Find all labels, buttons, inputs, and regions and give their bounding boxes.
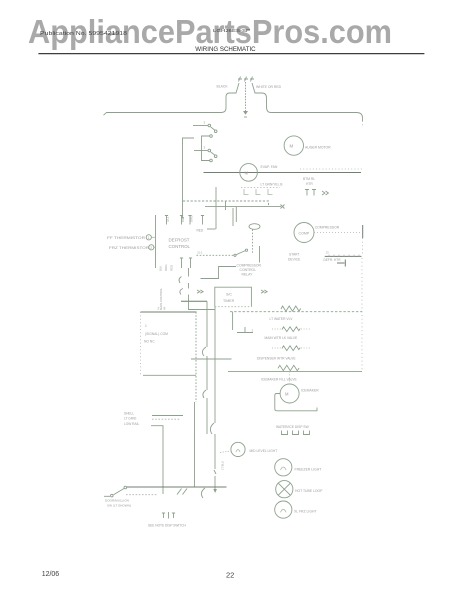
- motor M2 evap fan: [240, 164, 258, 182]
- door switch S2 terminal: [208, 149, 211, 152]
- defrost control bracket: [155, 215, 157, 268]
- control lower pin 1: [180, 258, 183, 268]
- main control box bottom: [143, 374, 196, 376]
- wire plug left to line L: [106, 83, 239, 113]
- wire to timer: [189, 301, 215, 309]
- icemaker motor: [280, 384, 299, 403]
- svg-text:J2-1: J2-1: [166, 216, 170, 222]
- svg-text:BLACK: BLACK: [217, 85, 229, 89]
- main control box left dotted: [140, 312, 142, 375]
- control pin 3: [188, 216, 191, 225]
- wire solid rail: [205, 206, 281, 208]
- svg-text:(SIGNAL) COM: (SIGNAL) COM: [145, 332, 168, 336]
- ground wire: [245, 82, 247, 111]
- door switch S2 stub: [194, 150, 208, 152]
- svg-text:NO NC: NO NC: [144, 340, 155, 344]
- shell wire 3: [151, 426, 163, 494]
- svg-text:COMPRESSOR: COMPRESSOR: [237, 264, 262, 268]
- svg-text:MAIN CONTROL: MAIN CONTROL: [159, 287, 163, 310]
- svg-text:WIRING SCHEMATIC: WIRING SCHEMATIC: [195, 46, 255, 53]
- door switch S1 stub: [193, 125, 208, 127]
- svg-text:SHELL: SHELL: [124, 412, 134, 416]
- bus break arc 2: [202, 347, 206, 356]
- svg-text:DOOR/MULLION: DOOR/MULLION: [105, 499, 129, 503]
- svg-text:3: 3: [252, 329, 254, 333]
- right bus solid segment: [362, 225, 364, 238]
- svg-text:CONTROL: CONTROL: [169, 244, 191, 249]
- connector pins right: [305, 190, 316, 196]
- heater R2 zigzag: [282, 327, 300, 332]
- freezer light: [275, 459, 292, 476]
- svg-text:ORG: ORG: [190, 216, 194, 222]
- wire drop A: [215, 187, 217, 229]
- arrow chevrons: [322, 191, 328, 195]
- control pin 1: [165, 216, 168, 225]
- svg-text:FREEZER LIGHT: FREEZER LIGHT: [295, 467, 322, 471]
- heater R3 zigzag: [282, 346, 300, 351]
- heater ladder top rail: [230, 311, 362, 313]
- svg-text:FF THERMISTOR: FF THERMISTOR: [107, 236, 145, 240]
- svg-text:COMPRESSOR: COMPRESSOR: [315, 226, 340, 230]
- svg-text:LOW RAIL: LOW RAIL: [124, 422, 139, 426]
- chevrons mid: [197, 290, 203, 293]
- FF thermistor pin circle: [146, 235, 151, 240]
- bus break arc 4: [201, 488, 205, 498]
- heater R1 zigzag: [281, 306, 301, 311]
- svg-text:2: 2: [150, 246, 152, 250]
- svg-text:LT WATER VLV: LT WATER VLV: [270, 317, 294, 321]
- R3 stubs: [272, 347, 282, 349]
- svg-text:HTR: HTR: [306, 182, 313, 186]
- svg-text:ORG: ORG: [164, 264, 168, 271]
- wire drop D: [235, 207, 237, 222]
- svg-text:RED: RED: [170, 265, 174, 271]
- connector row ticks: [241, 187, 280, 189]
- thermostat dashed wire: [252, 230, 254, 255]
- wire left bus: [181, 138, 194, 218]
- relay dashed wire: [197, 254, 235, 256]
- svg-text:RED: RED: [197, 229, 204, 233]
- relay coil wire: [259, 246, 261, 263]
- terminal pins bottom: [162, 512, 175, 519]
- bus from timer: [214, 307, 216, 423]
- chevrons right of timer: [261, 290, 267, 293]
- svg-text:EVAP. FAN: EVAP. FAN: [261, 165, 278, 169]
- control lower pin 2: [189, 258, 192, 268]
- svg-text:3: 3: [204, 121, 206, 125]
- right bus dashed lower: [362, 238, 364, 256]
- svg-text:J1-1: J1-1: [197, 251, 203, 255]
- R2 stubs: [272, 328, 282, 330]
- svg-text:BLK: BLK: [159, 265, 163, 271]
- bottom switch lower terminal: [111, 494, 114, 497]
- power plug P1 prongs: [238, 77, 254, 82]
- svg-text:Publication No. 5995421918: Publication No. 5995421918: [40, 31, 127, 37]
- bracket bottom terminal: [210, 159, 213, 162]
- title rule: [38, 53, 424, 55]
- svg-text:HOT TUBE LOOP: HOT TUBE LOOP: [295, 489, 323, 493]
- svg-text:FRZ THERMISTOR: FRZ THERMISTOR: [109, 246, 149, 250]
- S/C timer box: [215, 287, 252, 307]
- svg-text:8: 8: [164, 307, 166, 311]
- switch arc 1: [179, 277, 181, 284]
- mid solid bus: [206, 301, 208, 347]
- ladder bottom rail: [228, 370, 362, 372]
- main control box top: [141, 311, 197, 313]
- svg-text:M: M: [245, 170, 249, 175]
- svg-text:22: 22: [226, 571, 234, 580]
- svg-text:WHITE OR RED: WHITE OR RED: [256, 85, 282, 89]
- door switch S1 terminal: [208, 124, 211, 127]
- svg-text:J3: J3: [326, 250, 329, 254]
- svg-text:BTM RL: BTM RL: [303, 177, 315, 181]
- svg-text:S/C: S/C: [226, 293, 232, 297]
- svg-text:MAIN WTR LK VALVE: MAIN WTR LK VALVE: [265, 336, 298, 340]
- shell wire 2: [152, 418, 180, 420]
- heater R4 zigzag: [278, 365, 299, 370]
- svg-text:DEVICE: DEVICE: [288, 258, 301, 262]
- wire mid bus segment: [188, 268, 190, 277]
- dispenser switch contacts: [282, 431, 310, 435]
- icemaker feed wire: [191, 358, 232, 360]
- svg-text:LT BLU: LT BLU: [221, 461, 225, 470]
- door switch S2 arm: [211, 152, 215, 155]
- svg-text:ICEMAKER FILL VALVE: ICEMAKER FILL VALVE: [261, 378, 297, 382]
- svg-text:AUGER MOTOR: AUGER MOTOR: [305, 146, 331, 150]
- svg-text:START: START: [289, 253, 300, 257]
- svg-text:RELAY: RELAY: [242, 273, 254, 277]
- bottom rail: [127, 486, 227, 488]
- node hook at left end of line L: [104, 112, 107, 115]
- icemaker loop: [275, 394, 317, 411]
- bottom switch terminal: [124, 486, 127, 489]
- ladder left bus: [232, 312, 234, 330]
- wire dark junction: [181, 300, 207, 302]
- svg-text:SW (LT SHOWN): SW (LT SHOWN): [107, 504, 131, 508]
- wire RED jumper: [207, 228, 216, 230]
- compressor circle: [294, 223, 314, 243]
- door switch S2 lower terminal: [214, 155, 217, 158]
- svg-text:12/06: 12/06: [42, 571, 60, 578]
- wire drop C: [232, 208, 234, 226]
- bus arrow end: [213, 489, 217, 493]
- door switch S1 lower terminal: [214, 130, 217, 133]
- svg-text:1: 1: [148, 236, 150, 240]
- mid level light: [231, 442, 245, 456]
- motor M1 auger: [284, 136, 303, 155]
- bottom switch arm: [114, 489, 125, 495]
- switch arc 2: [180, 289, 183, 295]
- ice box light: [276, 481, 293, 498]
- inline connector row: [244, 189, 273, 195]
- wire dashed rail: [183, 201, 269, 206]
- main line N2: [204, 172, 362, 174]
- svg-text:LGH26ES-SP: LGH26ES-SP: [213, 28, 250, 33]
- right bus dashed upper: [362, 121, 364, 127]
- main control box right dashed bus: [195, 312, 197, 402]
- coil symbol: [237, 327, 253, 333]
- defrost heater element: [325, 255, 362, 257]
- relay switch arm: [236, 251, 246, 256]
- svg-text:COMP: COMP: [299, 231, 310, 235]
- compressor wire to bus: [314, 232, 363, 234]
- svg-text:WATER/ICE DISP SW: WATER/ICE DISP SW: [276, 425, 310, 429]
- door switch bracket: [202, 136, 210, 161]
- wire drop B: [225, 201, 227, 210]
- svg-text:XL FRZ LIGHT: XL FRZ LIGHT: [294, 510, 316, 514]
- svg-text:1: 1: [145, 324, 147, 328]
- svg-text:M: M: [290, 144, 294, 149]
- svg-text:CONTROL: CONTROL: [240, 268, 257, 272]
- svg-text:DEFROST: DEFROST: [169, 238, 190, 243]
- bus break arc 3: [203, 390, 206, 398]
- defrost thermostat oval: [249, 224, 260, 230]
- shell wire 1: [152, 415, 183, 417]
- control pin 2: [180, 216, 183, 225]
- dotted wire upper right: [300, 168, 362, 170]
- svg-text:ICEMAKER: ICEMAKER: [301, 389, 319, 393]
- run capacitor: [337, 260, 345, 267]
- fresh food light: [275, 501, 292, 518]
- svg-text:M: M: [285, 391, 289, 396]
- ground: [243, 111, 248, 117]
- icemaker drop: [289, 371, 291, 384]
- svg-text:DEFR. HTR: DEFR. HTR: [324, 258, 342, 262]
- svg-text:TIMER: TIMER: [223, 299, 235, 303]
- wire plug right to line N: [252, 83, 363, 121]
- FF thermistor wire: [152, 236, 156, 238]
- svg-text:BLK: BLK: [181, 217, 185, 222]
- svg-text:LT GRN/YEL B: LT GRN/YEL B: [261, 182, 284, 186]
- door switch S1 arm: [211, 127, 215, 130]
- FRZ thermistor pin circle: [149, 245, 154, 250]
- svg-text:SEE NOTE DISP SWITCH: SEE NOTE DISP SWITCH: [148, 524, 187, 528]
- svg-text:MID LEVEL LIGHT: MID LEVEL LIGHT: [250, 449, 278, 453]
- svg-text:3: 3: [204, 146, 206, 150]
- svg-text:DISPENSER WTR VALVE: DISPENSER WTR VALVE: [257, 357, 296, 361]
- FRZ thermistor wire: [154, 246, 156, 248]
- control pin 4: [201, 216, 204, 225]
- bracket top terminal: [210, 135, 213, 138]
- splice X: [281, 205, 285, 209]
- mid light stub: [220, 451, 231, 453]
- bottom switch stub: [104, 495, 110, 497]
- svg-text:LT GRID: LT GRID: [124, 417, 137, 421]
- hatch marks: [177, 489, 187, 495]
- right bus faint lower: [361, 258, 363, 370]
- relay L wires: [201, 267, 237, 279]
- bus break arc 1: [210, 423, 214, 434]
- bottom dashed wire: [126, 494, 158, 496]
